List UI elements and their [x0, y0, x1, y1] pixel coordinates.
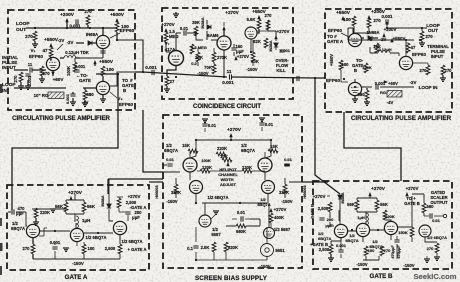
svg-text:IN38A: IN38A	[100, 195, 105, 206]
resistor 100 (gate A)	[82, 244, 86, 254]
resistor 120K (left)	[200, 169, 210, 173]
svg-text:H06003: H06003	[303, 185, 307, 198]
tube SB lower-right	[262, 181, 275, 194]
svg-text:1/2 6BQ7A: 1/2 6BQ7A	[427, 235, 447, 240]
svg-text:+270V: +270V	[227, 127, 242, 133]
svg-text:100: 100	[368, 248, 375, 253]
resistor 100 (gate B)	[364, 246, 368, 256]
wire +200V drop	[66, 22, 68, 28]
svg-text:270: 270	[25, 34, 33, 39]
resistor 20K	[196, 52, 200, 62]
resistor 680K	[236, 224, 246, 228]
resistor 100 (500V)	[115, 22, 119, 32]
capacitor under V2	[100, 51, 105, 53]
svg-text:56K: 56K	[380, 202, 388, 207]
coax hatched box 65/U	[48, 92, 64, 99]
resistor 270K	[212, 52, 216, 62]
svg-text:IN38A: IN38A	[200, 17, 205, 28]
capacitor 0.001 (loop in, vertical)	[70, 94, 75, 96]
resistor 220K (gate B)	[383, 210, 387, 220]
svg-text:1/2 6BQ7A: 1/2 6BQ7A	[86, 235, 107, 240]
scan smudge left edge 4	[0, 266, 2, 275]
wire: gate A right to screen-bias	[149, 181, 163, 183]
svg-text:150K: 150K	[398, 230, 408, 235]
capacitor loop-in right	[376, 84, 378, 89]
dashed enclosure: gate B	[313, 181, 452, 269]
svg-text:-2V: -2V	[380, 37, 387, 42]
svg-text:GATE A: GATE A	[65, 274, 88, 281]
svg-text:0.001: 0.001	[382, 14, 394, 19]
resistor 560	[422, 203, 426, 213]
svg-text:LOOP IN: LOOP IN	[419, 85, 438, 90]
ground below 27	[166, 86, 168, 89]
resistor 10K (SB)	[222, 158, 232, 162]
coil 1uH (gate B)	[366, 213, 368, 225]
svg-text:15K: 15K	[182, 143, 190, 148]
svg-text:EFP60: EFP60	[119, 102, 133, 107]
svg-text:CIRCULATING PULSE AMPLIFIER: CIRCULATING PULSE AMPLIFIER	[12, 115, 110, 122]
svg-text:0.01: 0.01	[237, 210, 246, 215]
tube right V2 EFP60	[399, 56, 412, 69]
junction right amp	[343, 78, 345, 80]
svg-text:1μH: 1μH	[82, 218, 90, 223]
svg-text:0.2: 0.2	[191, 61, 197, 66]
wire T2 top to rail	[102, 28, 104, 35]
svg-text:V₁: V₁	[31, 48, 36, 53]
svg-text:47: 47	[42, 48, 48, 53]
svg-text:μμF: μμF	[325, 223, 333, 228]
tube 5651	[261, 244, 274, 257]
svg-text:0.01: 0.01	[432, 218, 441, 223]
svg-text:IN: IN	[2, 88, 7, 94]
svg-text:5687: 5687	[211, 232, 221, 237]
wire 5.6K to V9	[257, 29, 259, 33]
svg-text:680K: 680K	[236, 229, 246, 234]
ground top-left coincidence	[173, 14, 179, 17]
tube SB upper-right	[258, 158, 272, 172]
svg-text:11: 11	[227, 69, 232, 74]
resistor 56K (gate B right)	[375, 200, 379, 210]
wire 550 to 100	[94, 64, 96, 66]
wire SB 330K stems	[176, 178, 285, 198]
wire gate B right feed	[412, 194, 437, 242]
tube SB lower-left	[190, 181, 203, 194]
tube gate B V4	[419, 225, 431, 237]
svg-text:220K: 220K	[40, 210, 50, 215]
svg-text:-150V: -150V	[403, 263, 414, 268]
wire top net coincidence	[196, 36, 217, 40]
wire right V1 plate	[348, 28, 353, 33]
capacitor 470uuF (gate B)	[394, 240, 399, 242]
svg-text:+200V: +200V	[384, 27, 397, 32]
svg-text:KILL: KILL	[276, 68, 286, 73]
junction on loop-out rail	[34, 27, 36, 29]
svg-text:5651: 5651	[275, 248, 285, 253]
capacitor 0.01 (gate B out)	[430, 213, 432, 218]
svg-text:2,500: 2,500	[319, 247, 330, 252]
svg-text:+550V: +550V	[99, 59, 114, 65]
wire V2 bottom to coil	[80, 49, 103, 58]
svg-text:+550V: +550V	[44, 37, 59, 43]
svg-text:20K: 20K	[195, 55, 203, 60]
svg-text:GATE: GATE	[79, 78, 91, 83]
svg-text:6BQ7A: 6BQ7A	[241, 148, 255, 153]
svg-text:6BQ7A: 6BQ7A	[345, 238, 358, 243]
svg-text:100: 100	[106, 67, 114, 72]
svg-text:0.001: 0.001	[222, 80, 234, 85]
svg-text:1.5 MEG: 1.5 MEG	[191, 45, 207, 50]
svg-text:0.001: 0.001	[70, 24, 82, 29]
svg-text:GATE A: GATE A	[327, 39, 344, 44]
svg-text:1/2 6BQ7A: 1/2 6BQ7A	[208, 195, 229, 200]
svg-text:+270V: +270V	[274, 207, 287, 212]
capacitor 0.001 (gate B)	[338, 250, 343, 252]
scan smudge left edge 1	[0, 84, 3, 93]
svg-text:270K: 270K	[217, 55, 227, 60]
dashed enclosure: right circulating pulse amplifier	[325, 9, 452, 112]
resistor 47	[49, 47, 53, 57]
wire: gate A top feed to screen bias	[108, 179, 163, 194]
wire SB lower	[196, 223, 271, 260]
diode IN38A (gate A)	[107, 204, 111, 208]
capacitor 0.001 (to +200V)	[76, 19, 78, 24]
ground input pair	[21, 80, 28, 86]
tube V7 417A	[169, 51, 184, 66]
scan smudge left edge 3	[0, 243, 3, 251]
svg-text:EFP60: EFP60	[120, 28, 135, 34]
svg-text:+270V: +270V	[237, 54, 249, 59]
resistor 39K	[194, 26, 198, 36]
svg-text:GATE B: GATE B	[370, 273, 393, 280]
wire right V3 connections	[341, 70, 355, 82]
resistor 56K (gate A right)	[82, 202, 86, 212]
resistor 330K (right)	[283, 184, 287, 194]
svg-text:+270V: +270V	[406, 186, 419, 191]
tube V2 EFP60	[96, 35, 109, 48]
svg-text:270: 270	[42, 71, 50, 76]
tube 1/2 5687 (left)	[199, 215, 211, 227]
svg-text:10K: 10K	[220, 154, 228, 159]
svg-text:270: 270	[373, 18, 381, 23]
wire 100 to T2	[116, 32, 118, 40]
resistor 56K (gate A left)	[64, 202, 68, 212]
svg-text:470μμF: 470μμF	[391, 245, 395, 259]
svg-text:-2V: -2V	[58, 38, 65, 43]
svg-text:6BQ7A: 6BQ7A	[318, 236, 331, 241]
resistor 820K	[224, 242, 228, 252]
capacitor 0.1	[193, 246, 198, 248]
resistor 680 (right)	[365, 90, 369, 100]
resistor 400K	[269, 213, 273, 223]
tube gate B V1	[334, 224, 347, 237]
svg-text:MEG: MEG	[169, 34, 179, 39]
svg-text:SeekIC.com: SeekIC.com	[413, 272, 456, 281]
svg-text:-150V: -150V	[281, 199, 292, 204]
capacitor 11/0.001 mid loop line	[230, 74, 232, 79]
svg-text:+270V: +270V	[371, 186, 386, 192]
wire: right amp down to gate B right	[344, 112, 401, 181]
resistor 270 (200V feed)	[86, 15, 90, 25]
tube V3 EFP60	[96, 81, 109, 94]
svg-text:0.01: 0.01	[166, 157, 175, 162]
wire: loop-out rail	[26, 27, 117, 29]
coil 1uH (gate A)	[76, 216, 78, 228]
wire right coil row	[370, 47, 399, 56]
resistor 100 (right lower)	[339, 60, 343, 70]
svg-text:270: 270	[420, 68, 428, 73]
svg-text:+200V: +200V	[60, 12, 75, 18]
resistor 270 (loop out)	[33, 31, 37, 41]
wire 270 to rail	[87, 25, 89, 28]
svg-text:-2V: -2V	[410, 80, 417, 85]
svg-text:EFP60: EFP60	[326, 78, 340, 83]
svg-text:0.01: 0.01	[208, 123, 217, 128]
ground cathode V1	[41, 76, 43, 79]
wire SB lower links	[205, 203, 269, 227]
supply +550V (lower)	[93, 60, 96, 64]
wire V1 cathode	[52, 71, 54, 76]
svg-text:39K: 39K	[192, 20, 200, 25]
svg-text:1μH: 1μH	[357, 215, 365, 220]
wire loop-in right	[362, 86, 414, 88]
wire plate to gate-B drop	[75, 58, 103, 62]
tube 1/2 5687 (right)	[264, 228, 275, 239]
resistor 10K (right)	[375, 43, 379, 53]
resistor 56K (gate B left)	[355, 200, 359, 210]
wire +270V rail screen bias	[196, 137, 271, 146]
tube gate A V1	[26, 224, 39, 237]
helipot wiper arrow	[227, 162, 229, 166]
resistor 82K	[264, 38, 268, 48]
resistor 15K (left diag)	[188, 149, 198, 153]
svg-text:680: 680	[86, 92, 94, 97]
svg-text:+ GATE A: + GATE A	[128, 247, 147, 252]
capacitor 470uuF	[12, 209, 14, 214]
svg-text:IN69A: IN69A	[86, 32, 99, 37]
resistor 2500 (gate A lower)	[118, 244, 122, 254]
svg-text:270: 270	[84, 9, 92, 14]
resistor 2500 (gate B upper)	[328, 202, 332, 212]
svg-text:+270V: +270V	[225, 10, 239, 15]
capacitor 0.01 (SB right edge)	[284, 164, 289, 166]
wire gate A input drop	[26, 212, 27, 226]
svg-text:1N69A: 1N69A	[366, 30, 379, 35]
wire loop-out right rail	[348, 22, 427, 40]
svg-text:40K: 40K	[251, 59, 259, 64]
tube gate B V3	[384, 221, 397, 234]
svg-text:100: 100	[342, 62, 350, 67]
capacitor 0.01	[184, 30, 186, 35]
diode IN69A	[76, 42, 96, 44]
tube SB upper-left	[183, 158, 197, 172]
svg-text:INPUT: INPUT	[431, 54, 444, 59]
tube right V3 EFP60	[348, 82, 361, 95]
resistor 100 (T3 screen)	[101, 66, 105, 76]
tube V8 (1/2 5687)	[217, 36, 231, 50]
svg-text:82K: 82K	[253, 39, 261, 44]
capacitor 0.001 at right amp entry	[297, 76, 299, 81]
svg-text:+270V: +270V	[161, 22, 175, 27]
ground below 270	[34, 41, 36, 44]
wire loop-in	[14, 87, 96, 89]
resistor 100K (vertical label)	[73, 62, 77, 72]
svg-text:470μμF: 470μμF	[397, 245, 401, 259]
wire: loop line coincidence to right amp	[232, 77, 325, 78]
svg-text:270: 270	[427, 246, 434, 251]
wire SB tube columns	[190, 172, 268, 203]
wire gate B T1 lower	[331, 238, 341, 244]
capacitor 0.01 (SB left edge)	[167, 164, 172, 166]
svg-text:0.001: 0.001	[145, 65, 157, 70]
dashed enclosure: coincidence circuit	[162, 8, 293, 99]
wire: left amp to screen-bias left	[143, 110, 163, 172]
svg-text:-150V: -150V	[166, 199, 177, 204]
svg-text:OUTPUT: OUTPUT	[430, 200, 448, 205]
wire T3 to loop exit	[110, 72, 135, 86]
svg-text:6BQ7A: 6BQ7A	[164, 148, 178, 153]
wire V7 plate up	[176, 33, 196, 50]
resistor 5.6K	[257, 19, 261, 29]
svg-text:11: 11	[28, 62, 33, 67]
wire SB left entries	[163, 165, 180, 172]
svg-text:680: 680	[357, 92, 365, 97]
svg-text:6AM6: 6AM6	[207, 33, 219, 38]
svg-text:270: 270	[265, 13, 273, 18]
ground 220K	[35, 218, 37, 222]
svg-text:400K: 400K	[274, 215, 284, 220]
resistor 270 (gate B)	[380, 246, 384, 256]
svg-text:+60V: +60V	[388, 81, 398, 86]
wire gate B cathodes	[363, 234, 391, 260]
svg-text:+270V: +270V	[277, 29, 290, 34]
wire diode branch	[206, 20, 208, 40]
resistor 270 (right V2 cathode)	[426, 65, 430, 75]
svg-text:270: 270	[13, 75, 18, 83]
wire 100 to T3	[102, 76, 104, 81]
resistor 270 (loop out right)	[420, 31, 424, 41]
svg-text:270: 270	[384, 248, 391, 253]
svg-text:-150V: -150V	[72, 261, 84, 266]
resistor 2500 (gate A upper)	[117, 198, 121, 208]
svg-text:0.001: 0.001	[65, 93, 70, 104]
svg-text:56K: 56K	[87, 204, 96, 209]
wire gate A V3	[119, 197, 128, 221]
junction T2 wire	[116, 39, 118, 41]
resistor 27	[165, 76, 169, 86]
wire gate A cathode row	[33, 235, 120, 245]
wire 20K chain	[198, 62, 214, 66]
capacitor 11 input	[30, 67, 32, 72]
svg-text:SCREEN BIAS SUPPLY: SCREEN BIAS SUPPLY	[195, 275, 268, 282]
svg-text:2.5K: 2.5K	[201, 245, 210, 250]
svg-text:1/2 6BQ7A: 1/2 6BQ7A	[122, 239, 143, 244]
tube gate A V3	[113, 221, 126, 234]
wire T3 cathode	[102, 95, 104, 99]
wire V8 top to +270V	[223, 30, 225, 36]
svg-text:56K: 56K	[347, 202, 355, 207]
svg-text:+60V: +60V	[53, 77, 65, 82]
wire: loop line left amp to coincidence	[135, 72, 227, 77]
svg-text:120K: 120K	[202, 165, 212, 170]
svg-text:V₇: V₇	[165, 41, 170, 46]
svg-text:0.1: 0.1	[187, 246, 193, 251]
resistor 270 (right top)	[367, 18, 371, 28]
wire 47 to T1	[50, 57, 51, 60]
svg-text:1/2 5687: 1/2 5687	[274, 227, 291, 232]
junction coincidence	[223, 76, 225, 78]
svg-text:0.001: 0.001	[75, 64, 86, 69]
svg-text:-GATE B: -GATE B	[310, 204, 315, 220]
resistor 220K	[216, 152, 226, 156]
svg-text:0.01: 0.01	[265, 122, 274, 127]
diode IN38A (gate B)	[338, 195, 342, 199]
capacitor 150uuF	[231, 48, 236, 50]
resistor 100K (right)	[364, 63, 368, 73]
potentiometer slider	[57, 44, 63, 50]
diode 1N69A (right)	[362, 37, 378, 39]
resistor 100 (right)	[352, 16, 356, 26]
resistor 270 (input, vertical label)	[19, 72, 23, 82]
svg-text:-150V: -150V	[197, 71, 208, 76]
resistor 270 (far right)	[441, 65, 445, 75]
resistor 220K (gate A)	[34, 208, 38, 218]
resistor 120K (right)	[242, 169, 252, 173]
wire 270 to overflow node	[268, 31, 276, 39]
capacitor 0.001 (gate A)	[52, 247, 57, 249]
svg-text:LOOP: LOOP	[16, 21, 30, 27]
resistor 40K	[251, 52, 255, 62]
svg-text:+270V: +270V	[128, 194, 141, 199]
dashed enclosure: screen bias supply	[163, 115, 302, 268]
diode IN38A (overflow)	[274, 43, 278, 47]
svg-text:270: 270	[425, 34, 433, 39]
svg-text:100: 100	[343, 17, 351, 22]
ground 5687 grid	[213, 211, 219, 214]
svg-text:+500V: +500V	[110, 12, 125, 18]
wire right V3 plate to loop	[354, 79, 356, 82]
svg-text:270: 270	[445, 68, 453, 73]
wire V9 down	[234, 39, 253, 56]
capacitor 0.01 (top left)	[202, 124, 207, 126]
svg-text:LOOP: LOOP	[2, 82, 16, 88]
wire gate B plate bridge	[357, 196, 377, 220]
wire TO-GATE vertical	[96, 74, 118, 110]
svg-text:OUT: OUT	[16, 27, 26, 33]
svg-text:μμF: μμF	[132, 215, 140, 220]
wire V7 grid	[166, 42, 170, 52]
svg-text:-4V: -4V	[387, 100, 394, 105]
svg-text:100: 100	[88, 246, 96, 251]
svg-text:220K: 220K	[217, 146, 227, 151]
svg-text:ADJUST: ADJUST	[220, 182, 237, 187]
svg-text:0.01: 0.01	[180, 26, 189, 31]
svg-text:+550V: +550V	[336, 10, 351, 16]
svg-text:EFP60: EFP60	[412, 52, 426, 57]
dashed enclosure: gate A	[7, 185, 149, 270]
wire V7 cathode to 27	[167, 66, 176, 76]
wire SB section divider	[202, 202, 267, 204]
resistor 47 (right)	[406, 43, 410, 53]
capacitor 0.001 (right top)	[386, 19, 388, 24]
svg-text:B: B	[354, 68, 357, 73]
svg-text:IN38A: IN38A	[268, 40, 273, 51]
svg-text:2,500: 2,500	[105, 246, 116, 251]
resistor 70K	[212, 64, 216, 74]
svg-text:270: 270	[23, 246, 31, 251]
svg-text:100K: 100K	[362, 65, 372, 70]
scan smudge left edge 2	[0, 218, 2, 226]
wire SB mid	[190, 152, 265, 171]
